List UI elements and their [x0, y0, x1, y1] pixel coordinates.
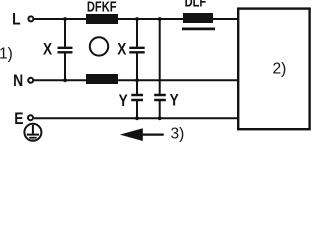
svg-text:X: X: [117, 40, 127, 59]
svg-text:DLF: DLF: [185, 0, 207, 10]
svg-text:Y: Y: [170, 91, 179, 110]
svg-text:3): 3): [171, 126, 185, 143]
svg-text:Y: Y: [119, 91, 128, 110]
svg-text:DFKF: DFKF: [87, 0, 117, 15]
svg-text:N: N: [13, 72, 23, 91]
svg-text:2): 2): [273, 61, 287, 78]
svg-text:E: E: [14, 110, 23, 129]
svg-text:X: X: [43, 40, 53, 59]
svg-text:L: L: [12, 10, 21, 29]
svg-text:1): 1): [0, 46, 13, 63]
